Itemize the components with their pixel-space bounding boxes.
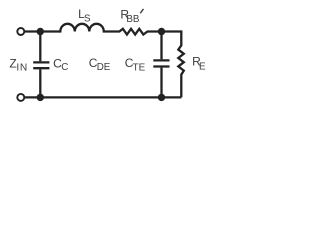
svg-text:DE: DE <box>97 62 111 73</box>
svg-text:IN: IN <box>16 63 28 74</box>
svg-text:E: E <box>199 62 206 73</box>
svg-text:C: C <box>61 62 68 73</box>
svg-text:TE: TE <box>133 62 146 73</box>
svg-text:S: S <box>84 13 91 24</box>
svg-text:BB: BB <box>126 14 140 25</box>
